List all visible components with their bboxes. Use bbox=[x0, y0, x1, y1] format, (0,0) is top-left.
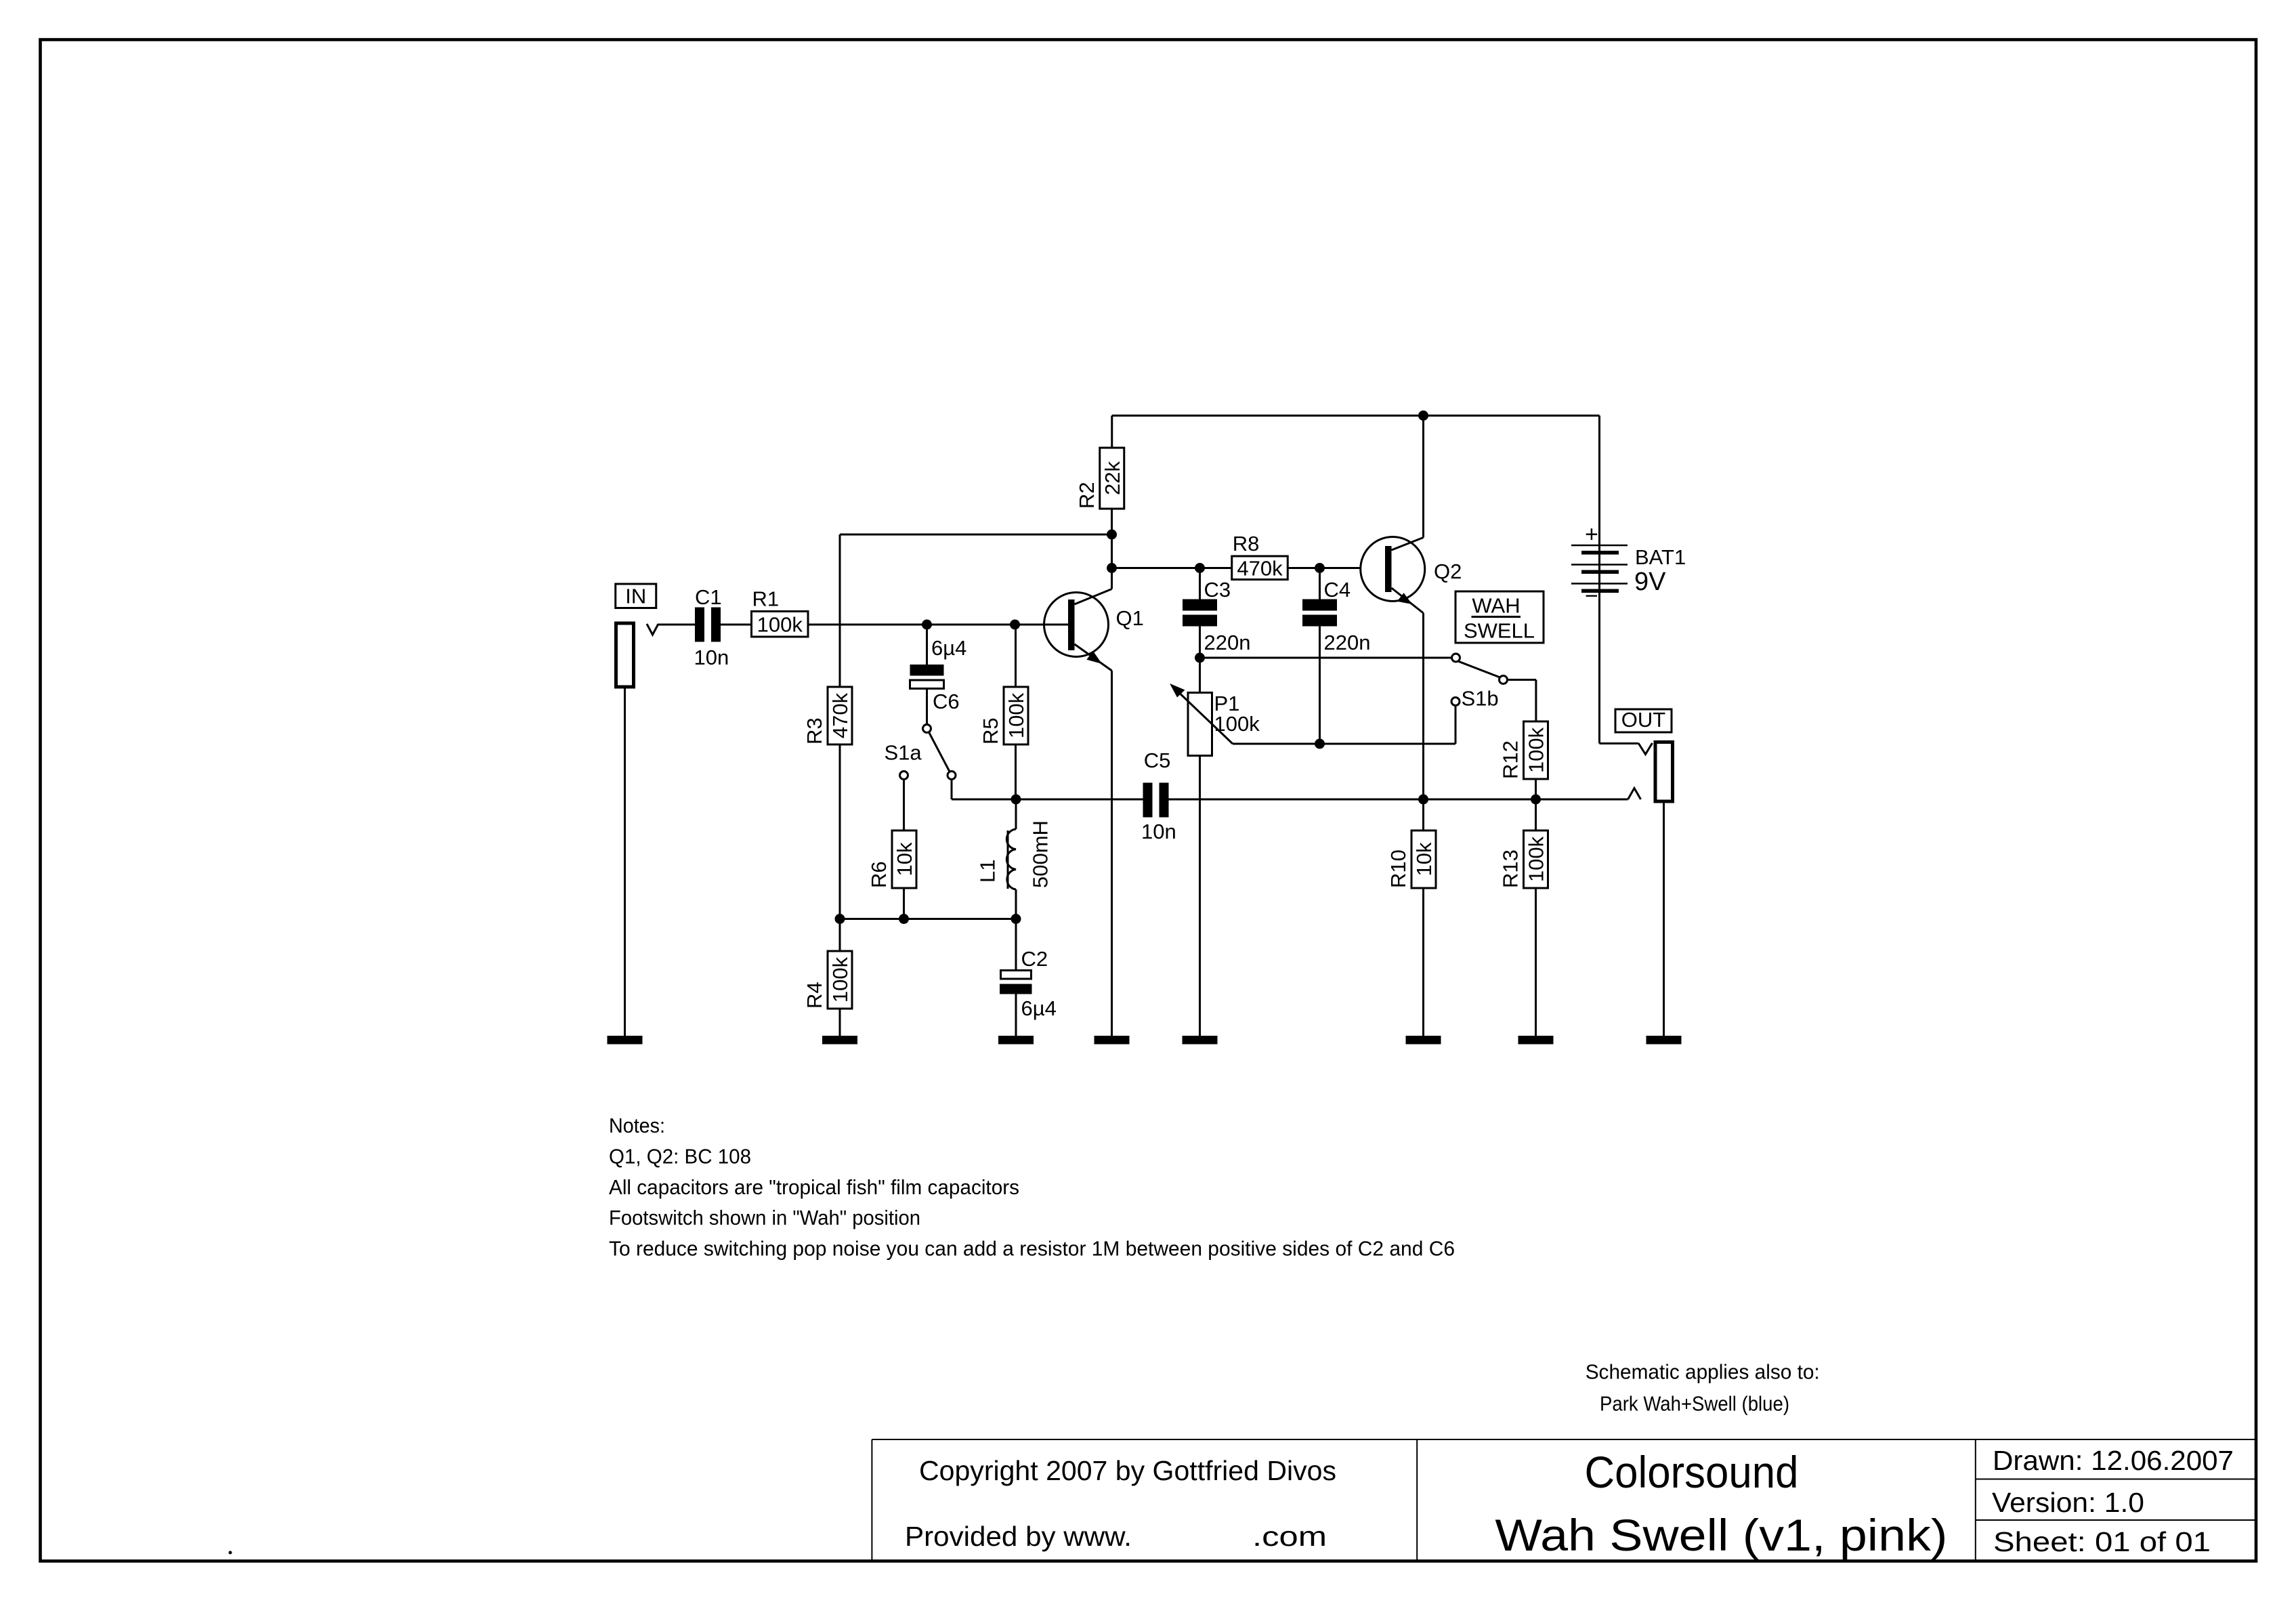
svg-text:R3: R3 bbox=[803, 717, 826, 744]
svg-text:22k: 22k bbox=[1101, 461, 1124, 495]
svg-text:R2: R2 bbox=[1075, 482, 1099, 509]
svg-text:100k: 100k bbox=[757, 612, 803, 636]
svg-text:100k: 100k bbox=[1525, 836, 1548, 882]
svg-text:R13: R13 bbox=[1499, 849, 1523, 888]
svg-text:R1: R1 bbox=[752, 587, 780, 611]
svg-text:220n: 220n bbox=[1204, 631, 1251, 654]
svg-text:All capacitors are "tropical f: All capacitors are "tropical fish" film … bbox=[609, 1175, 1019, 1199]
svg-text:Copyright 2007 by Gottfried Di: Copyright 2007 by Gottfried Divos bbox=[919, 1455, 1336, 1486]
svg-text:To reduce switching pop noise: To reduce switching pop noise you can ad… bbox=[609, 1237, 1455, 1261]
svg-text:Notes:: Notes: bbox=[609, 1114, 665, 1137]
svg-text:Park Wah+Swell (blue): Park Wah+Swell (blue) bbox=[1600, 1392, 1789, 1416]
svg-text:Provided by www.: Provided by www. bbox=[905, 1521, 1132, 1552]
svg-text:Colorsound: Colorsound bbox=[1585, 1447, 1799, 1497]
svg-text:470k: 470k bbox=[1237, 556, 1283, 580]
svg-text:220n: 220n bbox=[1324, 631, 1371, 654]
svg-text:+: + bbox=[1585, 522, 1598, 547]
svg-text:R5: R5 bbox=[979, 717, 1002, 744]
svg-text:WAH: WAH bbox=[1472, 594, 1520, 618]
svg-text:R8: R8 bbox=[1233, 532, 1260, 555]
svg-text:C2: C2 bbox=[1021, 947, 1048, 971]
svg-text:10n: 10n bbox=[1141, 820, 1176, 843]
svg-text:Wah Swell (v1, pink): Wah Swell (v1, pink) bbox=[1495, 1510, 1947, 1560]
svg-text:IN: IN bbox=[625, 585, 646, 608]
svg-text:10k: 10k bbox=[893, 842, 916, 876]
svg-text:C6: C6 bbox=[933, 690, 960, 713]
svg-text:−: − bbox=[1585, 583, 1598, 609]
svg-text:C3: C3 bbox=[1204, 578, 1231, 602]
svg-text:R6: R6 bbox=[867, 861, 891, 888]
svg-text:100k: 100k bbox=[828, 956, 852, 1003]
svg-text:SWELL: SWELL bbox=[1464, 619, 1535, 643]
svg-text:9V: 9V bbox=[1634, 568, 1666, 596]
svg-text:100k: 100k bbox=[1214, 712, 1260, 736]
svg-text:Footswitch shown in "Wah" posi: Footswitch shown in "Wah" position bbox=[609, 1206, 920, 1229]
svg-text:S1b: S1b bbox=[1462, 687, 1499, 711]
svg-text:R4: R4 bbox=[803, 982, 826, 1009]
svg-text:100k: 100k bbox=[1004, 692, 1028, 738]
svg-text:.com: .com bbox=[1252, 1521, 1327, 1552]
svg-text:R10: R10 bbox=[1386, 849, 1410, 888]
svg-text:Sheet: 01 of 01: Sheet: 01 of 01 bbox=[1993, 1526, 2211, 1557]
svg-text:C4: C4 bbox=[1324, 578, 1351, 602]
svg-text:Schematic applies also to:: Schematic applies also to: bbox=[1586, 1360, 1820, 1384]
svg-text:Q2: Q2 bbox=[1434, 560, 1462, 583]
svg-text:R12: R12 bbox=[1499, 740, 1523, 779]
svg-text:C1: C1 bbox=[695, 585, 722, 609]
svg-text:10n: 10n bbox=[694, 646, 729, 669]
svg-text:C5: C5 bbox=[1144, 749, 1171, 772]
svg-text:OUT: OUT bbox=[1621, 708, 1666, 732]
svg-text:Drawn: 12.06.2007: Drawn: 12.06.2007 bbox=[1993, 1445, 2234, 1476]
svg-text:BAT1: BAT1 bbox=[1635, 545, 1686, 569]
svg-text:S1a: S1a bbox=[885, 741, 922, 765]
svg-text:Version: 1.0: Version: 1.0 bbox=[1992, 1487, 2144, 1518]
svg-text:500mH: 500mH bbox=[1029, 820, 1053, 888]
svg-text:Q1: Q1 bbox=[1116, 606, 1144, 630]
svg-text:6µ4: 6µ4 bbox=[931, 636, 966, 660]
svg-text:470k: 470k bbox=[828, 692, 852, 738]
svg-text:6µ4: 6µ4 bbox=[1021, 996, 1057, 1020]
svg-text:10k: 10k bbox=[1412, 842, 1436, 876]
svg-text:100k: 100k bbox=[1525, 727, 1548, 773]
svg-text:Q1, Q2: BC 108: Q1, Q2: BC 108 bbox=[609, 1144, 751, 1168]
svg-text:L1: L1 bbox=[976, 860, 1000, 883]
